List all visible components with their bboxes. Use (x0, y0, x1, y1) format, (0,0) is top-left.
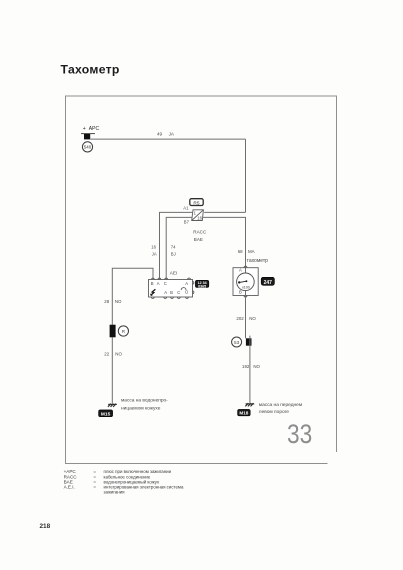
wire label 22 NO (104, 352, 122, 357)
svg-text:A.E.I.: A.E.I. (64, 485, 75, 490)
tachometer top pin bump (244, 266, 247, 268)
svg-text:C: C (177, 290, 180, 295)
wire 68 MA from connector to tachometer (202, 217, 245, 267)
wire 49 JA vertical drop (245, 139, 247, 212)
svg-text:16: 16 (151, 244, 156, 249)
svg-text:x100: x100 (242, 285, 250, 289)
AEI bottom pin bumps (151, 297, 154, 298)
svg-text:масса на переднем: масса на переднем (259, 403, 302, 408)
AEI coil hump symbol (181, 288, 186, 290)
wire 202 NO from tachometer to splice 53 (245, 296, 247, 339)
svg-text:53: 53 (234, 340, 240, 345)
splice 53 circle (232, 337, 242, 347)
svg-text:68: 68 (238, 249, 243, 254)
svg-text:B7: B7 (184, 219, 190, 224)
svg-text:192: 192 (242, 364, 250, 369)
+APC terminal block (84, 134, 90, 139)
wire 192 NO from splice to ground (249, 336, 251, 403)
svg-text:540: 540 (84, 145, 92, 150)
connector R5 id box (190, 199, 203, 207)
svg-text:AEI: AEI (170, 270, 177, 275)
svg-text:C: C (164, 281, 167, 286)
svg-text:зажигания: зажигания (104, 490, 126, 495)
svg-text:B: B (170, 290, 173, 295)
tachometer box (233, 266, 258, 297)
svg-text:M18: M18 (239, 411, 248, 416)
splice R block (110, 325, 116, 338)
svg-text:202: 202 (236, 316, 244, 321)
svg-text:JA: JA (152, 251, 157, 256)
wire label 192 NO (242, 364, 261, 369)
svg-text:масса на водонепро-: масса на водонепро- (121, 399, 168, 404)
svg-text:A: A (157, 281, 160, 286)
wire 49 JA horizontal (90, 138, 245, 140)
wire into connector pin A1 (204, 211, 245, 213)
tachometer internal lead bottom (245, 290, 247, 295)
svg-text:+: + (83, 126, 86, 132)
AEI right pin bumps (193, 281, 194, 284)
svg-text:A: A (164, 290, 167, 295)
svg-text:левом пороге: левом пороге (259, 410, 290, 415)
wire 16 JA from connector to AEI pin A (160, 212, 193, 279)
tachometer needle (239, 281, 246, 282)
svg-text:MA: MA (248, 249, 255, 254)
connector R5 body (192, 210, 204, 221)
splice 53 block (246, 338, 252, 345)
svg-text:BJ: BJ (171, 251, 176, 256)
wire 28 NO from AEI pin B to splice (112, 268, 153, 325)
svg-text:A: A (239, 268, 242, 273)
svg-text:NO: NO (249, 316, 256, 321)
svg-text:49: 49 (157, 131, 163, 136)
svg-text:0365: 0365 (198, 284, 206, 288)
AEI lightning symbol (150, 289, 155, 296)
splice R circle (118, 326, 128, 336)
AEI pin letters top (151, 281, 189, 286)
ground tag M18 (238, 409, 251, 415)
svg-text:R: R (122, 329, 126, 334)
svg-text:=: = (93, 485, 96, 490)
wire label 16 JA (151, 244, 157, 256)
svg-text:NO: NO (115, 352, 122, 357)
+APC terminal bar (81, 133, 95, 135)
ground note right (259, 403, 302, 415)
svg-text:BAE: BAE (194, 237, 203, 242)
svg-text:тахометр: тахометр (247, 258, 269, 264)
svg-text:22: 22 (104, 352, 109, 357)
svg-text:D: D (185, 290, 188, 295)
svg-text:33: 33 (287, 419, 312, 449)
ground symbol right (245, 403, 254, 406)
wire label 68 MA (238, 249, 255, 254)
svg-text:ницаемом кожухе: ницаемом кожухе (121, 406, 161, 411)
svg-text:A1: A1 (183, 205, 189, 210)
ground note left (121, 399, 168, 412)
svg-text:74: 74 (171, 244, 176, 249)
svg-text:28: 28 (104, 299, 109, 304)
svg-text:RACC: RACC (193, 230, 207, 235)
wire 22 NO from splice to ground (111, 337, 113, 403)
AEI module box (149, 278, 194, 298)
ground tag M15 (99, 410, 113, 418)
svg-text:R5: R5 (193, 200, 199, 206)
wire label 202 NO (236, 316, 256, 321)
svg-text:NO: NO (115, 299, 122, 304)
legend (64, 469, 184, 494)
AEI top pin bumps (152, 278, 155, 279)
tachometer id tag 247 (261, 277, 274, 286)
svg-text:JA: JA (169, 131, 175, 136)
AEI id tag 120 (195, 280, 208, 288)
svg-text:A: A (185, 281, 188, 286)
svg-text:Тахометр: Тахометр (61, 63, 120, 77)
wire 74 BJ from AEI pin C to connector (166, 217, 192, 279)
svg-text:M15: M15 (101, 411, 111, 417)
svg-text:247: 247 (264, 280, 273, 286)
svg-text:APC: APC (89, 126, 100, 132)
supply node 540 (82, 142, 92, 152)
tachometer internal lead top (245, 268, 247, 274)
tachometer dial (237, 273, 255, 291)
svg-text:NO: NO (253, 364, 260, 369)
svg-text:218: 218 (40, 523, 51, 530)
tachometer bottom pin bump (244, 296, 247, 298)
svg-text:B: B (239, 290, 242, 295)
svg-text:16: 16 (197, 216, 202, 221)
wire label 28 NO (104, 299, 122, 304)
svg-text:B: B (151, 281, 154, 286)
ground symbol left (108, 404, 117, 407)
AEI pin letters bottom (164, 290, 188, 295)
border frame (66, 96, 337, 464)
wire label 74 BJ (171, 244, 176, 256)
